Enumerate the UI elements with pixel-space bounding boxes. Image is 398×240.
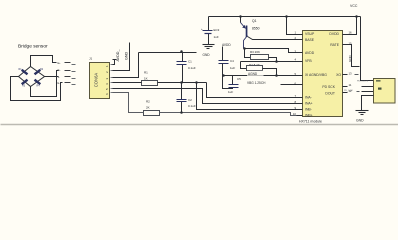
wire bridge right to terminal row 3 [45,76,59,78]
junction Q1 emitter [239,15,242,18]
wire collector node down to R3 [245,49,251,58]
IC right pin stubs [343,35,348,93]
wire AVDD rail [139,52,197,54]
resistor R4 8.2K [247,63,263,71]
svg-text:11: 11 [349,83,352,87]
svg-text:INA+: INA+ [305,102,313,106]
net dash XO [355,74,359,76]
svg-text:GND: GND [348,55,352,63]
svg-text:AVDD: AVDD [222,43,231,47]
svg-text:C4: C4 [230,59,234,63]
svg-text:PD SCK: PD SCK [322,85,335,89]
svg-text:BASE: BASE [305,38,315,42]
bridge resistor RB2 (top-right) [35,68,44,74]
svg-text:AVDD: AVDD [305,51,315,55]
svg-text:Q1: Q1 [252,19,257,23]
IC U1 HX711 [299,31,343,124]
svg-text:INA-: INA- [305,96,312,100]
svg-text:2K: 2K [146,106,150,110]
wire J1 pin5 to pin8 INA+ [113,89,297,104]
junction C2 bottom [180,111,183,114]
VCC rail [209,16,361,18]
wire VCC down to J2 pin1 [361,17,374,81]
svg-text:C1: C1 [188,60,192,64]
wire bridge left to terminal row 4 [11,77,63,101]
J1 pin stubs [111,65,113,93]
junction VFB node [275,60,278,63]
wire VFB down to R4 left [241,62,247,69]
svg-text:PD_SCK: PD_SCK [344,90,353,92]
wire bridge bottom to terminal row 2 [31,71,59,97]
svg-text:CON6A: CON6A [94,73,99,88]
svg-text:13: 13 [349,71,353,75]
bridge sensor diamond wires [19,67,45,87]
terminal stub row 1 [58,62,71,65]
bridge resistor RB3 (bottom-left) [22,80,28,88]
svg-text:DVDD: DVDD [329,32,339,36]
resistor R2 2K [144,100,160,116]
junction C1 top [180,50,183,53]
svg-text:GND: GND [356,119,364,123]
svg-text:10: 10 [293,112,297,116]
junction INB- riser on R1 net [195,81,198,84]
wire pin15 RATE to GND [348,45,360,67]
svg-text:C2: C2 [188,98,192,102]
wire J2 pin3 DOUT [362,91,374,93]
IC pin name labels [305,32,341,118]
wire AVDD stub down to C4 [222,47,224,61]
svg-text:GND: GND [203,53,211,57]
wire J2 GND pin down to ground [362,96,374,111]
svg-text:EC3: EC3 [214,28,220,32]
wire J1 pin3 up to AVDD rail [113,53,139,78]
svg-text:0.1uF: 0.1uF [188,66,196,70]
junction AGND node [222,74,225,77]
resistor R3 20K [250,50,269,60]
svg-text:8550: 8550 [252,27,260,31]
frame bottom border [1,124,398,126]
capacitor C2 [177,83,196,113]
wire pin16 DVDD to VCC [348,17,357,35]
wire J1 pin1 to net AVDD_ [113,60,117,65]
svg-text:R3 20K: R3 20K [250,50,260,54]
wire riser to pin7 INA- [207,83,297,98]
IC right pin numbers [349,30,353,93]
wire bridge top to terminal row 1 [31,56,57,67]
svg-text:RATE: RATE [330,43,340,47]
svg-text:GND: GND [125,51,129,60]
svg-text:VCC: VCC [350,4,358,8]
svg-text:XI AGND/VBG: XI AGND/VBG [305,73,327,77]
resistor R1 1K [142,71,158,86]
wire J2 pin2 PD_SCK [362,86,374,88]
svg-text:C5: C5 [237,77,241,81]
junction VCC stub [355,15,358,18]
svg-text:1K: 1K [144,77,148,81]
junction pin1 riser [285,15,288,18]
net dash DOUT [357,91,360,93]
svg-text:INB-: INB- [305,108,312,112]
connector J1 [89,57,110,99]
wire VBG to pin6 [281,84,297,86]
svg-text:VFB: VFB [305,59,312,63]
capacitor C1 [177,53,196,83]
capacitor C5 [223,76,242,95]
bridge resistor RB1 (top-left) [19,68,28,74]
capacitor EC3 [201,17,220,45]
IC left pin stubs [297,35,303,116]
wire J1 pin4 through R1 to INA- riser [113,82,207,84]
svg-text:E-: E- [58,82,61,85]
svg-text:VBG 1.25CH: VBG 1.25CH [247,81,266,85]
terminal stub row 2 [58,69,71,72]
svg-text:DOUT: DOUT [325,92,335,96]
wire J1 pin2 to net GND [113,43,130,71]
svg-text:AGND: AGND [248,72,258,76]
transistor Q1 8550 [241,17,297,49]
capacitor C4 [219,59,236,76]
svg-text:+: + [201,27,203,31]
wire pin1 VSUP riser [287,17,297,35]
svg-text:0.1uF: 0.1uF [188,104,196,108]
svg-text:1uF: 1uF [230,66,235,70]
svg-text:16: 16 [349,30,353,34]
svg-text:Bridge sensor: Bridge sensor [18,44,48,50]
IC left pin numbers [293,30,297,116]
junction R4 on AGND [275,74,278,77]
svg-text:PD_SCK◄: PD_SCK◄ [357,80,368,83]
bridge resistor RB4 (bottom-right) [35,80,41,88]
junction AVDD collector node [243,47,246,50]
terminal secondary marks [72,64,76,85]
svg-text:AVDD_: AVDD_ [116,49,120,62]
ground below EC3 [203,45,215,58]
wire riser to pin9 INB- [197,83,297,110]
svg-text:1uF: 1uF [214,35,219,39]
svg-text:J1: J1 [89,57,93,61]
wire AGND node to pin5 [223,75,297,77]
svg-text:INB+: INB+ [305,114,313,118]
svg-text:S-: S- [58,76,61,79]
svg-text:HX711 module: HX711 module [299,120,322,124]
terminal stub row 3 [58,76,71,79]
svg-text:XO: XO [336,73,341,77]
svg-text:VSUP: VSUP [305,32,315,36]
wire R3 to VFB node [269,58,277,62]
wire J1 pin6 through R2 to pin10 INB+ [113,93,297,116]
svg-text:R2: R2 [146,100,150,104]
J1 pin numbers [105,65,109,95]
svg-text:R1: R1 [144,71,148,75]
connector J2 [374,79,396,104]
svg-text:1uF: 1uF [228,90,233,94]
wire R4 right to AGND [263,69,277,76]
junction C1 bottom on R1 net [180,81,183,84]
terminal stub row 4 [58,82,71,85]
ground symbol bottom right [356,111,369,123]
wire VFB rail to pin4 [241,61,297,63]
wire collector node to pin3 AVDD [245,49,297,53]
net label AGND [247,71,264,76]
